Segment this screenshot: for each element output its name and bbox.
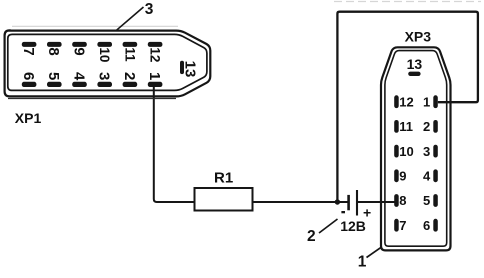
svg-text:1: 1 [423,94,430,109]
svg-text:2: 2 [307,228,316,245]
svg-text:11: 11 [399,119,413,134]
svg-text:13: 13 [407,56,423,72]
svg-text:4: 4 [70,72,87,81]
svg-text:4: 4 [423,169,431,184]
svg-text:2: 2 [121,72,138,80]
svg-text:3: 3 [96,72,113,80]
svg-text:XP3: XP3 [405,29,432,45]
svg-text:9: 9 [70,47,87,55]
svg-text:8: 8 [45,47,62,55]
svg-text:6: 6 [423,218,430,233]
svg-text:2: 2 [423,119,430,134]
svg-text:6: 6 [20,72,37,80]
svg-text:1: 1 [146,72,163,80]
svg-text:13: 13 [182,61,199,78]
svg-text:R1: R1 [214,170,233,187]
svg-text:7: 7 [20,47,37,55]
svg-text:9: 9 [399,169,406,184]
svg-text:1: 1 [358,253,367,270]
svg-text:12: 12 [399,94,413,109]
svg-text:3: 3 [423,144,430,159]
svg-text:10: 10 [97,47,112,62]
svg-text:11: 11 [122,47,137,62]
svg-text:3: 3 [145,1,154,18]
svg-text:12: 12 [148,47,163,62]
svg-text:12В: 12В [340,218,366,234]
svg-text:XP1: XP1 [15,110,42,126]
svg-text:7: 7 [399,218,406,233]
svg-text:8: 8 [399,193,406,208]
svg-text:5: 5 [45,72,62,80]
svg-text:10: 10 [399,144,413,159]
svg-text:5: 5 [423,193,430,208]
